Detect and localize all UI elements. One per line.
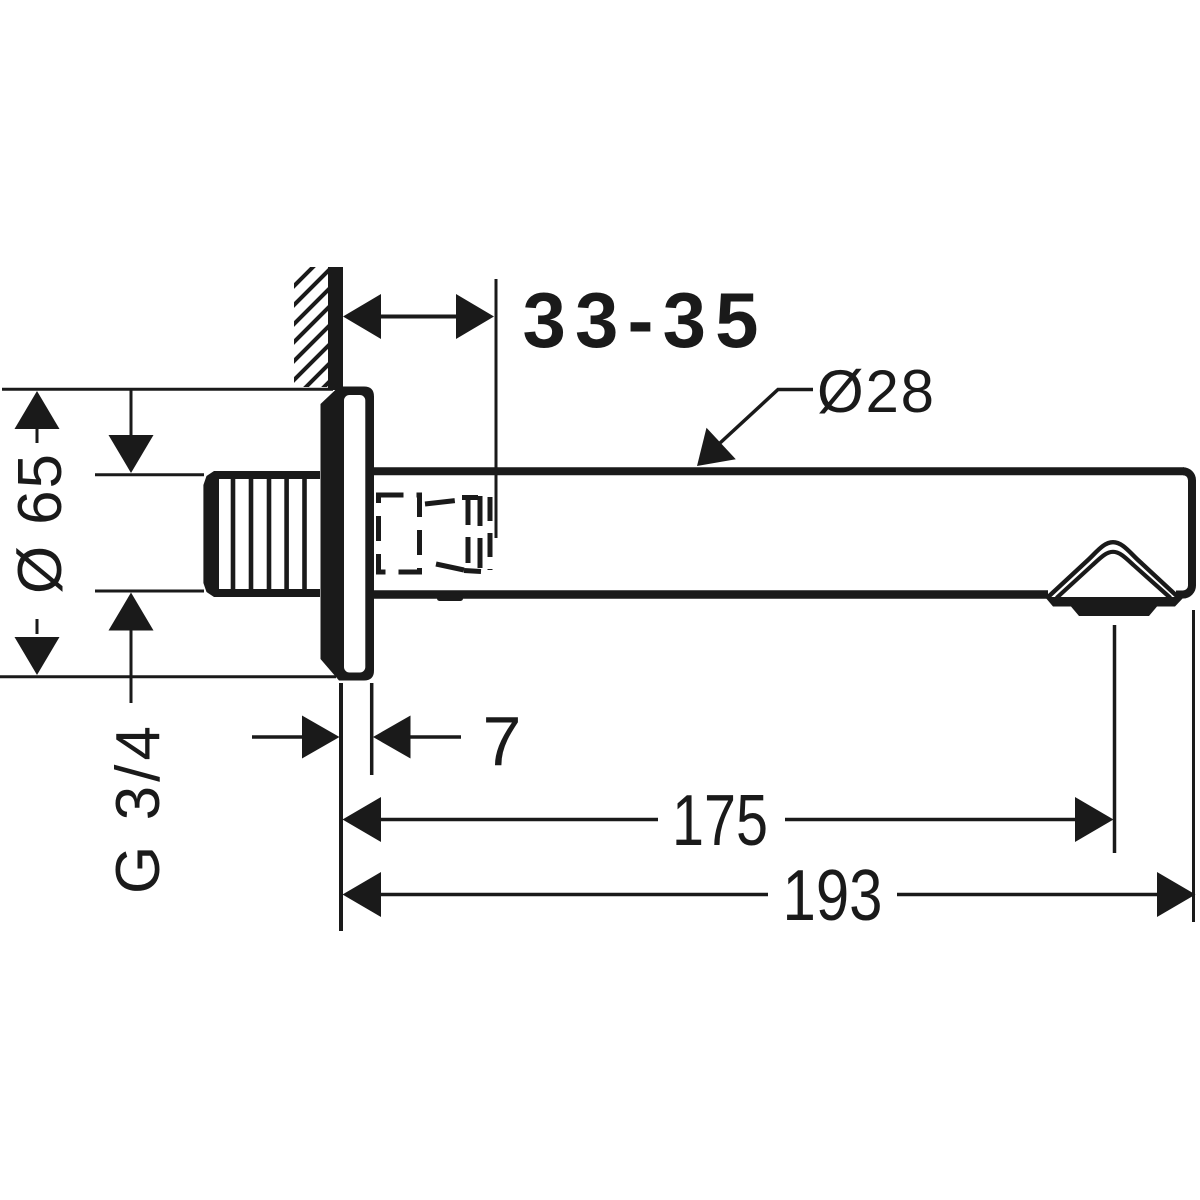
wall line [328,267,343,390]
dim 7 right shaft [410,735,461,739]
dim 7 right arrow [373,716,411,759]
dia 65 dim line lower [36,619,39,634]
dim 7 left shaft [252,735,303,739]
dia 65 dim line upper [36,429,39,443]
thread ridges [231,479,307,589]
outlet inner chevron [1057,552,1171,598]
svg-text:Ø28: Ø28 [817,358,934,425]
svg-text:7: 7 [483,702,522,780]
wall hatching [0,200,511,700]
outlet aerator band [1045,597,1184,607]
dim 175 line right [785,818,1078,822]
dim 33-35 right arrow [456,294,494,339]
flange face highlight [344,395,365,673]
thread bottom extension line [95,590,204,593]
dim 7 wall-face extension line [339,683,343,931]
internal cartridge dashed box [379,495,491,572]
dia 65 bottom extension line [0,675,336,678]
tube end extension line [1192,610,1195,922]
dim 175 right arrow [1075,797,1114,842]
dim 193 left arrow [343,872,382,917]
dia 28 leader line [707,390,813,456]
svg-text:G 3/4: G 3/4 [104,726,173,894]
dia 28 leader arrow [697,428,736,466]
outlet outer chevron [1047,542,1179,598]
thread top extension line [95,473,204,476]
outlet aerator ring [1071,607,1157,617]
dia 65 top extension line [2,388,333,391]
dim 193 right arrow [1157,872,1196,917]
thread body [203,471,320,597]
outlet center extension line [1113,625,1117,853]
internal cone dashed lines [425,500,460,504]
cartridge retainer bump under tube [437,595,463,601]
svg-text:175: 175 [672,781,768,861]
G 3/4 dim line upper [130,389,133,436]
dim 33-35 line [378,315,460,319]
G 3/4 up arrow [109,593,154,631]
internal collar dashed lines [466,499,471,569]
dia 65 up arrow [15,391,60,429]
dim 193 line left [379,893,768,897]
G 3/4 dim line lower [130,630,133,703]
spout tube right end [1176,471,1192,594]
flange escutcheon [321,387,375,681]
dim 33-35 left arrow [343,294,381,339]
spout tube top line [374,467,1184,475]
G 3/4 down arrow [109,435,154,473]
dim 7 left arrow [302,716,340,759]
svg-text:33-35: 33-35 [523,276,759,364]
dim 175 line left [379,818,658,822]
svg-text:Ø 65: Ø 65 [6,454,75,594]
dim 193 line right [897,893,1158,897]
dim 33-35 extension line [495,279,498,538]
dia 65 down arrow [15,637,60,675]
spout tube bottom line [374,590,1048,599]
dim 7 flange-face extension line [370,683,374,775]
dim 175 left arrow [343,797,382,842]
svg-text:193: 193 [783,856,883,936]
